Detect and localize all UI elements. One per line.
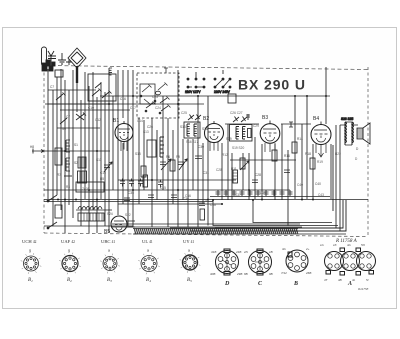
svg-text:C12: C12 [95, 118, 101, 122]
capacitor C32 [289, 122, 293, 127]
svg-text:30B: 30B [210, 272, 215, 276]
chassis dashed boundary right [367, 67, 369, 235]
capacitor C46 [199, 203, 205, 206]
svg-text:24B: 24B [235, 250, 241, 254]
svg-text:C39: C39 [260, 191, 266, 195]
connector D [216, 249, 239, 275]
tuning arrow [179, 159, 187, 170]
wire [96, 97, 98, 233]
svg-text:7/12: 7/12 [281, 271, 287, 275]
voltage selector 110V [185, 72, 205, 94]
svg-text:BX 290 U: BX 290 U [238, 77, 306, 93]
svg-text:C43: C43 [318, 193, 324, 197]
trimmer [233, 114, 250, 122]
switch contact [158, 83, 168, 91]
RF switch lever [92, 89, 102, 97]
coupling box [55, 70, 63, 77]
corner wire [286, 200, 346, 231]
svg-text:1A: 1A [320, 243, 324, 247]
wire [64, 80, 66, 233]
wire [281, 124, 283, 200]
wire [64, 175, 72, 177]
wire [248, 153, 250, 200]
bus band bottom [133, 233, 346, 235]
bus band fill [134, 229, 298, 235]
corner wire [332, 145, 334, 211]
svg-text:C28: C28 [255, 173, 261, 177]
chassis dashed boundary top [45, 66, 368, 70]
long horizontals [44, 96, 368, 226]
switch dot [159, 112, 161, 114]
svg-text:S6: S6 [62, 127, 66, 131]
trimmer C15 arrow [104, 162, 112, 172]
capacitor C19 [195, 156, 202, 159]
wire grid bus [100, 95, 330, 97]
frame aerial [42, 47, 47, 66]
switch frame [140, 84, 155, 104]
aerial terminal Y [48, 51, 54, 69]
svg-text:S19 S20: S19 S20 [232, 146, 244, 150]
svg-text:2+: 2+ [305, 247, 310, 251]
svg-text:C45: C45 [160, 186, 166, 190]
wire [80, 100, 82, 226]
switch dot [47, 227, 49, 229]
switch contact [161, 105, 171, 112]
scattered component labels 2 [57, 106, 358, 217]
wire [57, 127, 100, 129]
svg-text:H8: H8 [30, 145, 34, 149]
socket UY [180, 252, 201, 273]
wire [274, 144, 276, 200]
IF coil comb [187, 124, 190, 136]
wire [261, 144, 263, 200]
svg-text:S1: S1 [74, 143, 78, 147]
C pin labels [243, 250, 273, 276]
wire [108, 72, 110, 233]
svg-text:R22: R22 [335, 152, 341, 156]
mid section wiring [118, 70, 203, 227]
nested right angles bottom right [215, 145, 346, 231]
switch rotor [156, 91, 161, 95]
padder cap [160, 162, 184, 165]
wire [187, 139, 189, 227]
svg-text:R4: R4 [66, 185, 70, 189]
svg-text:B: B [293, 281, 298, 287]
potentiometer box [76, 182, 104, 192]
loop wire [253, 200, 332, 223]
tube B2 [205, 124, 224, 152]
wire [242, 153, 244, 190]
wire [56, 77, 58, 195]
wire [162, 96, 164, 190]
terminal blob [42, 63, 47, 71]
capacitor C18 [124, 198, 130, 201]
svg-text:B1: B1 [113, 118, 119, 124]
terminal blob [49, 66, 53, 71]
wire [254, 137, 256, 199]
switch contact [144, 99, 153, 106]
pickup lead (thick) [76, 66, 78, 83]
svg-text:C14: C14 [137, 119, 143, 123]
svg-text:4A: 4A [347, 243, 351, 247]
wire [339, 125, 341, 231]
wire [122, 70, 124, 118]
wire [88, 86, 90, 233]
capacitor bank C43 [138, 179, 143, 187]
wire [294, 96, 296, 199]
wire [104, 92, 106, 226]
svg-text:S13: S13 [143, 130, 149, 134]
svg-text:5O: 5O [361, 243, 366, 247]
RF switch lever [95, 83, 101, 88]
corner wire [215, 200, 343, 228]
resistor hatch [233, 173, 238, 179]
switch dot [154, 100, 156, 102]
switch contact [146, 102, 156, 109]
wire [143, 120, 145, 190]
terminal block [52, 62, 55, 66]
svg-text:UCH 42: UCH 42 [22, 239, 37, 244]
capacitor C44 [158, 180, 163, 188]
resistor R18 [310, 158, 315, 169]
svg-text:31B: 31B [211, 250, 216, 254]
wire [112, 96, 114, 190]
tube B5 [111, 216, 135, 232]
svg-text:9B: 9B [269, 272, 273, 276]
svg-text:B5: B5 [187, 278, 192, 283]
wire [325, 67, 327, 124]
wave-band switch arrow [32, 149, 44, 154]
wire [172, 130, 174, 204]
wire [44, 199, 368, 201]
capacitor bank C42 [129, 179, 134, 187]
svg-text:UBC 41: UBC 41 [101, 239, 115, 244]
coil box S3 [55, 148, 62, 165]
nested corner wire [170, 227, 336, 229]
svg-text:UAF 42: UAF 42 [61, 239, 75, 244]
chassis dashed boundary left [43, 67, 45, 233]
transformer wires [340, 122, 358, 145]
coil S7 teeth [80, 157, 84, 168]
IF coil comb [243, 127, 246, 140]
capacitor C22 [171, 195, 177, 198]
svg-text:C26 C27: C26 C27 [230, 111, 243, 115]
socket UAF [59, 253, 81, 275]
svg-text:B4: B4 [146, 278, 151, 283]
B pin labels [281, 247, 311, 275]
svg-text:C37: C37 [235, 193, 241, 197]
svg-text:C25: C25 [152, 95, 158, 99]
svg-text:S26 S25: S26 S25 [341, 117, 353, 121]
IF transformer T3 box [230, 125, 253, 142]
switch lever [60, 118, 67, 124]
capacitor C21 [148, 195, 154, 198]
band switch unit dashed box [137, 68, 179, 118]
svg-text:B1: B1 [28, 278, 33, 283]
wire [156, 130, 158, 200]
switch S [48, 195, 57, 228]
capacitor bank C41 [120, 179, 125, 187]
chassis dashed boundary bottom-left [44, 233, 368, 237]
tuning arrow [161, 159, 171, 170]
switch box [137, 73, 179, 118]
svg-text:C30: C30 [198, 145, 204, 149]
ground symbol [58, 53, 66, 64]
wire [118, 203, 222, 205]
svg-text:29B: 29B [236, 272, 242, 276]
IF coil comb [236, 127, 239, 140]
RF unit box [88, 74, 116, 101]
coil S9 teeth [80, 171, 84, 183]
decoupling caps row [216, 190, 293, 196]
junction dots [57, 95, 327, 205]
coil S9 box [78, 171, 87, 183]
svg-text:4B: 4B [338, 278, 342, 282]
resistor R13 [240, 158, 245, 169]
switch contact [142, 85, 152, 93]
socket UL [138, 253, 160, 275]
svg-text:C31: C31 [203, 171, 209, 175]
wire [92, 72, 94, 210]
svg-text:C24: C24 [155, 106, 161, 110]
svg-text:C36: C36 [185, 194, 191, 198]
resistor R8 [141, 166, 146, 177]
junction box [228, 94, 236, 103]
wire [60, 109, 130, 111]
resistor R17 [200, 209, 205, 220]
coupling box [248, 129, 252, 138]
wire [84, 72, 86, 199]
svg-text:C7: C7 [66, 115, 70, 119]
wire [231, 153, 233, 200]
RF switch lever [102, 91, 112, 99]
socket UCH [21, 253, 42, 274]
capacitor C1 [48, 56, 56, 59]
bus wire [112, 226, 302, 228]
svg-text:R12: R12 [222, 153, 228, 157]
svg-text:B2: B2 [67, 278, 72, 283]
svg-text:C47: C47 [203, 199, 209, 203]
coil S2 [66, 158, 70, 171]
RF coil comb [109, 68, 112, 75]
svg-text:S2: S2 [74, 161, 78, 165]
svg-text:110V 127V: 110V 127V [185, 90, 201, 94]
svg-text:R16: R16 [284, 154, 290, 158]
connector B [286, 250, 308, 272]
resistor R15 [292, 142, 297, 153]
svg-text:R14: R14 [297, 137, 303, 141]
svg-text:UY 41: UY 41 [183, 239, 194, 244]
wire [45, 103, 204, 105]
connector C [249, 249, 272, 275]
svg-text:R11: R11 [231, 167, 237, 171]
svg-text:C40: C40 [297, 183, 303, 187]
svg-text:B3: B3 [107, 278, 112, 283]
capacitor C34 [284, 170, 290, 173]
svg-text:1B: 1B [269, 250, 273, 254]
svg-text:R18: R18 [305, 152, 311, 156]
svg-text:2N: 2N [243, 250, 249, 254]
wire [44, 150, 110, 152]
resistor R10 [233, 170, 238, 183]
svg-text:S16 S17: S16 S17 [186, 140, 198, 144]
resistor R9 [170, 160, 175, 171]
wire [127, 70, 129, 226]
switch lever [56, 93, 66, 101]
wire [167, 118, 169, 227]
tube B3 [260, 124, 280, 152]
switch dot [145, 110, 147, 112]
connector A triple [325, 248, 376, 275]
tuning arrow [240, 161, 249, 170]
output transformer secondary S25 [352, 122, 354, 145]
capacitor C15 [104, 165, 110, 168]
wire [287, 150, 289, 226]
network hatch [81, 213, 102, 221]
svg-text:C10: C10 [88, 106, 94, 110]
D pin labels [210, 250, 242, 276]
wire [68, 90, 70, 205]
wire [301, 124, 303, 200]
wire [118, 179, 236, 181]
coil box S4 [55, 205, 62, 218]
wire [60, 69, 62, 210]
svg-text:C7: C7 [50, 85, 54, 89]
svg-text:R3: R3 [57, 173, 61, 177]
IF transformer T2 box [184, 122, 200, 138]
svg-text:g: g [29, 249, 31, 253]
nested corner wire [190, 230, 340, 232]
svg-text:C29: C29 [253, 124, 259, 128]
wire [330, 144, 332, 199]
coil S1 [66, 140, 70, 152]
svg-text:3A: 3A [282, 247, 286, 251]
loop wire [213, 200, 338, 226]
wire [306, 96, 308, 199]
wire [192, 139, 194, 190]
svg-text:C48: C48 [210, 203, 216, 207]
svg-text:S19: S19 [226, 137, 232, 141]
svg-text:C15: C15 [100, 171, 106, 175]
svg-text:S13: S13 [135, 152, 141, 156]
svg-text:R19: R19 [317, 160, 323, 164]
svg-text:C40: C40 [315, 182, 321, 186]
svg-text:a: a [188, 249, 190, 253]
wire [47, 69, 49, 199]
trimmer C2 [76, 113, 86, 121]
svg-text:8B: 8B [244, 272, 248, 276]
svg-text:B4: B4 [313, 116, 319, 122]
wire [44, 225, 133, 227]
svg-text:A: A [347, 281, 352, 287]
wire [210, 196, 330, 198]
wire [151, 118, 153, 227]
bus wire [112, 223, 300, 225]
speaker [357, 128, 363, 139]
svg-text:7405: 7405 [82, 187, 90, 191]
wire [197, 96, 199, 227]
svg-text:R9: R9 [176, 155, 180, 159]
switch dot [47, 200, 49, 202]
IF coil comb [160, 137, 164, 157]
svg-text:D: D [224, 281, 230, 287]
wire [230, 159, 296, 161]
wire [182, 139, 184, 200]
resistor R16 [272, 150, 277, 161]
pickup lead wire [76, 83, 78, 112]
right section [124, 67, 370, 231]
bus hatching [134, 229, 298, 235]
heater chain bus [112, 224, 346, 234]
capacitor C29 [252, 180, 258, 183]
wire [207, 96, 209, 226]
switch dot [140, 95, 142, 97]
wire [312, 144, 314, 200]
switch box stub [164, 68, 168, 73]
svg-text:S18: S18 [202, 127, 208, 131]
left section wiring [32, 63, 130, 233]
svg-text:g: g [68, 249, 70, 253]
svg-text:5I: 5I [366, 278, 369, 282]
svg-text:C26: C26 [147, 125, 153, 129]
switch contact [160, 97, 170, 104]
wire anode line [225, 123, 259, 125]
svg-text:S16: S16 [180, 125, 186, 129]
svg-text:C16: C16 [120, 97, 126, 101]
svg-text:S11: S11 [96, 158, 102, 162]
wire [72, 70, 74, 218]
output transformer primary S26 [345, 122, 347, 145]
svg-text:S24: S24 [107, 212, 113, 216]
tone coil [78, 207, 102, 210]
svg-text:220V 245V: 220V 245V [214, 90, 231, 94]
wire [48, 103, 113, 105]
wire [48, 89, 96, 91]
wire [138, 118, 140, 204]
wire [117, 70, 119, 215]
svg-text:R6: R6 [166, 155, 170, 159]
svg-text:C28: C28 [216, 168, 222, 172]
label CT [66, 59, 72, 65]
wire [177, 70, 179, 227]
tube top stub [124, 121, 321, 125]
resistor network box [78, 213, 104, 221]
svg-text:R5: R5 [100, 177, 104, 181]
wire [44, 201, 213, 203]
wire [100, 82, 102, 199]
svg-text:C17: C17 [130, 106, 136, 110]
wire [44, 189, 290, 191]
svg-text:a: a [108, 249, 110, 253]
coil S7 box [78, 157, 86, 168]
socket UBC [100, 254, 120, 274]
svg-text:B5: B5 [104, 229, 110, 235]
wire [221, 143, 223, 200]
bottom-left output stage [47, 179, 330, 229]
scattered tiny component labels [30, 85, 359, 216]
svg-text:UL 41: UL 41 [142, 239, 153, 244]
wire [76, 209, 112, 211]
svg-text:C35: C35 [128, 191, 134, 195]
svg-text:B3: B3 [262, 115, 268, 121]
wire [132, 70, 134, 227]
svg-text:S22: S22 [125, 213, 131, 217]
A pin labels [320, 243, 369, 282]
resistor R7 [143, 175, 148, 187]
wire [202, 143, 204, 204]
wire [52, 90, 54, 226]
IF transformer T1 box [147, 140, 156, 157]
